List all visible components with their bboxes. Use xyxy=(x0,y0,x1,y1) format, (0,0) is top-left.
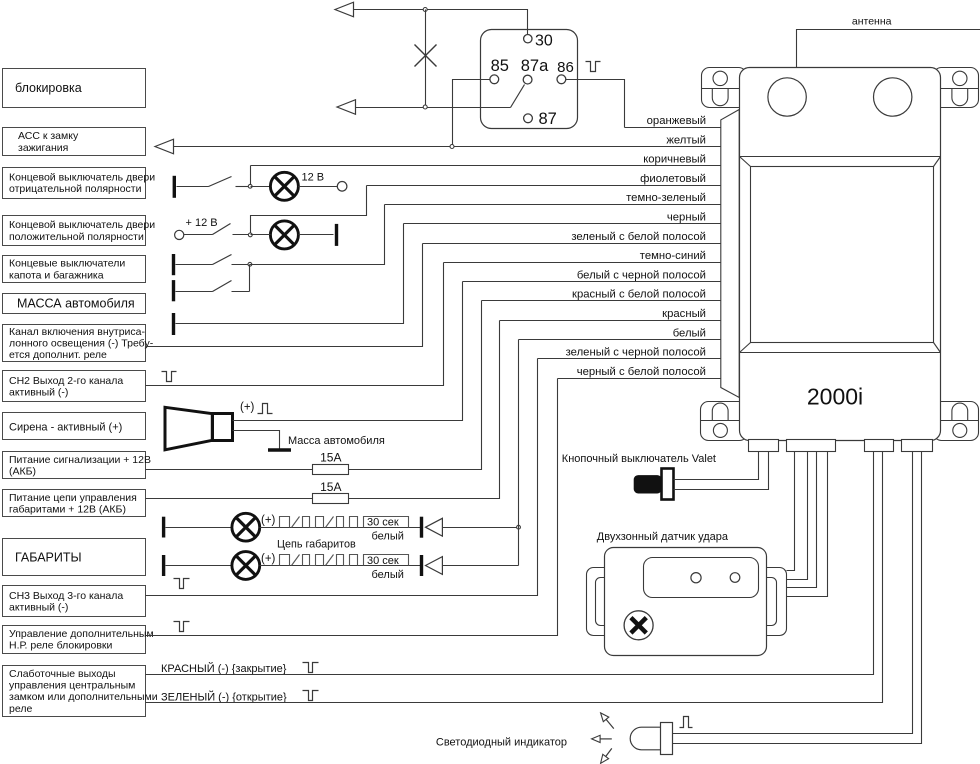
wire massa to black wire xyxy=(176,224,404,324)
svg-text:15А: 15А xyxy=(320,450,341,464)
svg-text:красный с белой полосой: красный с белой полосой xyxy=(572,289,706,301)
vertical wire through X xyxy=(425,10,427,108)
svg-text:Сирена - активный (+): Сирена - активный (+) xyxy=(9,421,122,433)
svg-text:Концевой выключатель двери: Концевой выключатель двери xyxy=(9,219,155,231)
relay pin 85 xyxy=(490,57,509,84)
wire with waveform to diode xyxy=(260,527,422,529)
siren signal wire to white-black wire xyxy=(233,282,463,421)
diode arrow xyxy=(420,555,423,576)
relay pin 86 xyxy=(557,59,574,84)
wire diode to white wire xyxy=(443,527,519,529)
svg-text:лонного освещения (-) Требу-: лонного освещения (-) Требу- xyxy=(9,338,154,350)
wire черный xyxy=(404,212,722,224)
main unit: bottom mounting ear right xyxy=(934,402,979,441)
junction to violet wire xyxy=(248,186,366,237)
shock sensor inner panel xyxy=(644,558,759,598)
svg-text:30 сек: 30 сек xyxy=(367,517,399,529)
unit bottom tab 4 xyxy=(902,440,933,452)
svg-text:87а: 87а xyxy=(521,57,549,75)
wire черный с белой полосой xyxy=(558,366,722,379)
label box: Управление дополнительным Н.Р. реле блокировки xyxy=(3,626,154,654)
wire diode to white wire xyxy=(443,565,519,567)
label box: АСС к замку зажигания xyxy=(3,128,146,156)
wire желтый xyxy=(173,134,722,146)
pulse waveform xyxy=(280,555,290,566)
pulse waveform xyxy=(280,517,290,528)
svg-text:Концевой выключатель двери: Концевой выключатель двери xyxy=(9,171,155,183)
svg-text:коричневый: коричневый xyxy=(643,154,706,166)
wire canal to green-white wire xyxy=(146,244,423,347)
green wire to unit tab xyxy=(146,452,883,703)
main unit: top mounting ear left xyxy=(702,68,747,108)
svg-text:Канал включения внутриса-: Канал включения внутриса- xyxy=(9,326,146,338)
door switch neg: contact bar xyxy=(173,176,176,198)
svg-text:желтый: желтый xyxy=(666,134,706,146)
wire красный xyxy=(500,308,722,321)
LED pulse symbol xyxy=(680,717,693,728)
shock sensor body xyxy=(605,548,767,656)
wire белый xyxy=(519,327,722,339)
unit bottom tab 1 xyxy=(749,440,779,452)
red wire to unit tab xyxy=(146,452,874,675)
svg-text:отрицательной полярности: отрицательной полярности xyxy=(9,183,142,195)
svg-text:30 сек: 30 сек xyxy=(367,555,399,567)
svg-text:(+): (+) xyxy=(240,402,255,414)
junction to brown wire xyxy=(248,166,252,189)
ground symbol xyxy=(268,448,291,452)
white wire vertical to lamp circuits xyxy=(518,340,520,566)
door pos: switch xyxy=(184,224,251,235)
left connector strip xyxy=(721,110,739,398)
wire зеленый с черной полосой xyxy=(538,347,722,359)
relay pin 87 xyxy=(524,110,557,128)
svg-text:КРАСНЫЙ (-) {закрытие}: КРАСНЫЙ (-) {закрытие} xyxy=(161,662,287,675)
svg-text:(+): (+) xyxy=(261,553,276,565)
terminal bar after lamp xyxy=(335,224,338,246)
svg-text:управления центральным: управления центральным xyxy=(9,680,135,692)
wire trunk switch up to junction xyxy=(249,265,251,292)
valet wires to unit tab1 xyxy=(674,452,769,490)
svg-text:Питание цепи управления: Питание цепи управления xyxy=(9,492,137,504)
junction node at lower wire xyxy=(423,105,427,109)
siren (+) pulse label xyxy=(240,402,273,414)
main unit body xyxy=(740,68,941,441)
svg-text:Кнопочный выключатель Valet: Кнопочный выключатель Valet xyxy=(562,453,716,465)
svg-text:СН3 Выход 3-го канала: СН3 Выход 3-го канала xyxy=(9,590,123,602)
svg-text:темно-зеленый: темно-зеленый xyxy=(626,192,706,204)
svg-text:87: 87 xyxy=(539,110,557,128)
svg-text:(АКБ): (АКБ) xyxy=(9,466,36,478)
svg-text:активный (-): активный (-) xyxy=(9,386,68,398)
label box: Концевые выключатели капота и багажника xyxy=(3,256,146,283)
svg-text:МАССА автомобиля: МАССА автомобиля xyxy=(17,296,135,310)
relay switch arm 87a xyxy=(511,85,525,108)
valet button plunger xyxy=(634,475,662,493)
sensor adjust circle 2 xyxy=(730,573,740,583)
wire CH2 to dark-blue wire xyxy=(146,263,444,386)
relay pin 30 xyxy=(524,32,553,49)
trunk switch xyxy=(176,281,250,292)
svg-text:положительной полярности: положительной полярности xyxy=(9,231,144,243)
label box: МАССА автомобиля xyxy=(3,294,146,314)
parking lamp xyxy=(166,565,233,567)
svg-text:ЗЕЛЕНЫЙ (-) {открытие}: ЗЕЛЕНЫЙ (-) {открытие} xyxy=(161,690,287,703)
door pos: +12V terminal circle xyxy=(175,230,184,239)
svg-text:зеленый с белой полосой: зеленый с белой полосой xyxy=(571,231,706,243)
svg-text:Слаботочные выходы: Слаботочные выходы xyxy=(9,668,116,680)
svg-text:габаритами + 12В (АКБ): габаритами + 12В (АКБ) xyxy=(9,503,126,515)
siren horn symbol xyxy=(165,407,233,450)
CH2 pulse symbol xyxy=(162,372,177,382)
label box: СН2 Выход 2-го канала активный (-) xyxy=(3,371,146,402)
label box: Слаботочные выходы управления центральным замком xyxy=(3,666,158,717)
door switch neg: switch xyxy=(177,177,251,187)
wire темно-зеленый xyxy=(385,192,722,204)
svg-text:12 В: 12 В xyxy=(302,171,325,183)
wire темно-синий xyxy=(444,250,722,262)
LED wires to unit tab4 xyxy=(673,452,922,744)
LED light arrows xyxy=(592,713,614,763)
wire коричневый xyxy=(251,154,722,166)
svg-text:фиолетовый: фиолетовый xyxy=(640,173,706,185)
wire красный с белой полосой xyxy=(482,289,722,301)
svg-text:белый: белый xyxy=(372,531,404,543)
svg-text:активный (-): активный (-) xyxy=(9,601,68,613)
svg-text:зеленый с черной полосой: зеленый с черной полосой xyxy=(566,347,706,359)
unit inner frame xyxy=(740,157,941,353)
unit bottom tab 3 xyxy=(865,440,894,452)
svg-text:2000i: 2000i xyxy=(807,384,863,410)
wire белый с черной полосой xyxy=(463,269,722,281)
label box: Концевой выключатель двери отрицательной полярности xyxy=(3,168,156,199)
svg-text:Цепь габаритов: Цепь габаритов xyxy=(277,539,356,551)
open terminal circle xyxy=(337,182,347,192)
label box: Питание сигнализации + 12В (АКБ) xyxy=(3,452,152,479)
svg-text:+ 12 В: + 12 В xyxy=(186,217,218,229)
svg-text:85: 85 xyxy=(491,57,509,75)
svg-text:Светодиодный индикатор: Светодиодный индикатор xyxy=(436,737,567,749)
parking lamp bar xyxy=(162,555,165,576)
wire зеленый с белой полосой xyxy=(423,231,722,244)
label box: Канал включения внутрисалонного освещения xyxy=(3,325,154,362)
label box: Концевой выключатель двери положительной полярности xyxy=(3,216,156,246)
wire оранжевый xyxy=(625,115,722,128)
car ground bar xyxy=(172,313,175,335)
wire power supply through fuse 15A xyxy=(146,301,482,470)
svg-text:15А: 15А xyxy=(320,480,341,494)
svg-text:антенна: антенна xyxy=(852,15,892,27)
svg-text:черный: черный xyxy=(667,212,706,224)
svg-text:ется дополнит. реле: ется дополнит. реле xyxy=(9,349,107,361)
junction node at top wire xyxy=(423,8,427,12)
svg-text:86: 86 xyxy=(557,59,574,76)
svg-text:реле: реле xyxy=(9,703,32,715)
diode arrow xyxy=(420,517,423,538)
junction on yellow wire xyxy=(450,145,454,149)
label box: ГАБАРИТЫ xyxy=(3,539,146,576)
wire parking power through fuse 15A xyxy=(146,321,500,499)
fuse F1 15A xyxy=(313,450,349,474)
lamp 12V door pos xyxy=(270,221,298,249)
junction to dark-green wire xyxy=(248,205,385,267)
svg-text:белый: белый xyxy=(673,327,706,339)
wire pin 85 down to yellow wire xyxy=(453,80,491,147)
LED body xyxy=(630,723,672,755)
svg-text:блокировка: блокировка xyxy=(15,81,82,95)
shock sensor: left tab xyxy=(587,568,634,636)
svg-text:капота и багажника: капота и багажника xyxy=(9,269,104,281)
sensor lamp symbol xyxy=(624,611,653,640)
svg-text:Двухзонный датчик удара: Двухзонный датчик удара xyxy=(597,531,729,543)
parking lamp bar xyxy=(162,517,165,538)
siren ground wire xyxy=(233,431,280,449)
svg-text:ГАБАРИТЫ: ГАБАРИТЫ xyxy=(15,550,82,564)
svg-text:Управление дополнительным: Управление дополнительным xyxy=(9,628,154,640)
unit top circle right xyxy=(874,78,912,116)
svg-text:Концевые выключатели: Концевые выключатели xyxy=(9,258,125,270)
svg-text:30: 30 xyxy=(535,32,553,49)
svg-text:белый: белый xyxy=(372,569,404,581)
wire lamp to +12V terminal xyxy=(299,186,338,188)
label box: Сирена - активный (+) xyxy=(3,413,146,440)
svg-text:Масса автомобиля: Масса автомобиля xyxy=(288,435,385,447)
wire with waveform to diode xyxy=(260,565,422,567)
pulse symbol near pin 86 xyxy=(586,62,601,72)
label box: блокировка xyxy=(3,69,146,108)
sensor adjust circle 1 xyxy=(691,573,701,583)
pulse green symbol xyxy=(303,691,319,701)
label box: Питание цепи управления габаритами + 12В (АКБ) xyxy=(3,490,146,517)
ACC arrow to ignition lock xyxy=(155,139,174,154)
relay pin 87a xyxy=(521,57,549,84)
svg-text:красный: красный xyxy=(662,308,706,320)
pulse symbol КРАСНЫЙ xyxy=(303,663,319,673)
svg-text:СН2 Выход 2-го канала: СН2 Выход 2-го канала xyxy=(9,375,123,387)
label box: СН3 Выход 3-го канала активный (-) xyxy=(3,586,146,617)
main unit: bottom mounting ear left xyxy=(701,402,748,441)
parking lamp xyxy=(166,527,233,529)
blocking contact X symbol xyxy=(415,45,437,67)
svg-text:Н.Р. реле блокировки: Н.Р. реле блокировки xyxy=(9,640,113,652)
lamp 12V door neg xyxy=(251,186,270,188)
svg-text:белый с черной полосой: белый с черной полосой xyxy=(577,269,706,281)
relay K1 body xyxy=(481,30,578,129)
svg-text:черный с белой полосой: черный с белой полосой xyxy=(577,366,706,378)
hood switch xyxy=(176,255,250,265)
svg-text:Питание сигнализации + 12В: Питание сигнализации + 12В xyxy=(9,454,151,466)
unit bottom tab 2 xyxy=(787,440,836,452)
fuse F2 15A xyxy=(313,480,349,503)
relay control pulse symbol xyxy=(174,622,190,632)
hood switch bar xyxy=(172,254,175,275)
svg-text:зажигания: зажигания xyxy=(18,142,68,154)
svg-text:темно-синий: темно-синий xyxy=(640,250,706,262)
CH3 pulse symbol xyxy=(174,579,190,589)
shock sensor: right tab xyxy=(745,568,787,636)
svg-text:(+): (+) xyxy=(261,515,276,527)
wire relay control to black-white wire xyxy=(146,379,558,636)
svg-text:оранжевый: оранжевый xyxy=(647,115,706,127)
antenna wire xyxy=(797,30,980,68)
trunk switch bar xyxy=(172,280,175,301)
wire фиолетовый xyxy=(367,173,722,186)
wire to pin 30 with left arrow xyxy=(335,2,528,34)
main unit: top mounting ear right xyxy=(934,68,979,108)
lower wire with left arrow to 87a xyxy=(337,100,511,115)
unit top circle left xyxy=(768,78,806,116)
wire pin 86 to orange wire xyxy=(566,80,625,128)
valet button body xyxy=(662,469,674,500)
sensor wires to unit tab2 xyxy=(787,452,828,597)
svg-text:АСС к замку: АСС к замку xyxy=(18,130,79,142)
wire CH3 to green-black wire xyxy=(146,359,538,596)
svg-text:замком или дополнительными: замком или дополнительными xyxy=(9,691,158,703)
